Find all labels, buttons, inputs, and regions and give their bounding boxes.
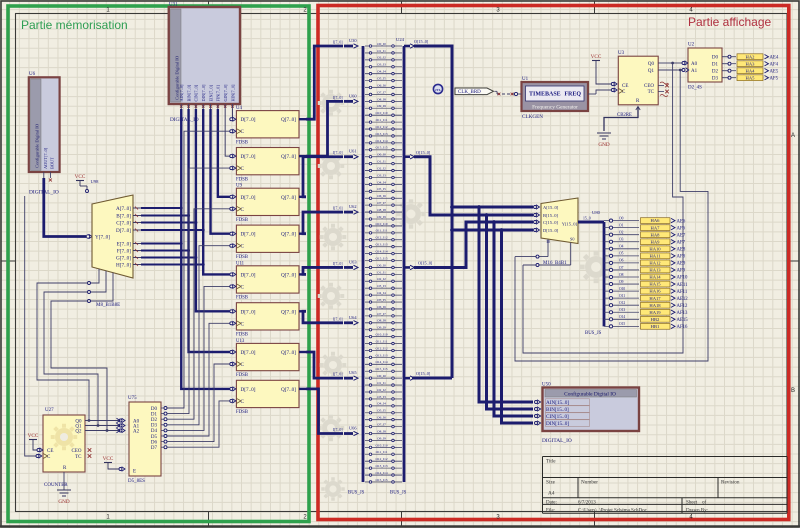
svg-text:AE6: AE6	[677, 219, 686, 224]
svg-text:HA17: HA17	[649, 296, 661, 301]
svg-text:O[15..0]: O[15..0]	[416, 371, 431, 376]
svg-text:VCC: VCC	[103, 456, 114, 462]
svg-text:O5_I5: O5_I5	[377, 409, 386, 413]
svg-text:FDSB: FDSB	[236, 140, 248, 145]
svg-text:U13: U13	[236, 339, 245, 344]
svg-text:Configurable Digital IO: Configurable Digital IO	[35, 123, 40, 168]
svg-text:O7_I7: O7_I7	[377, 423, 386, 427]
svg-text:AF16: AF16	[677, 325, 689, 330]
svg-text:Number: Number	[581, 480, 598, 486]
svg-text:AIN[7..0]: AIN[7..0]	[179, 84, 184, 102]
svg-text:VCC: VCC	[591, 54, 602, 60]
svg-text:O4_I4: O4_I4	[377, 180, 386, 184]
svg-text:O1_I1: O1_I1	[377, 381, 386, 385]
svg-text:D[7..0]: D[7..0]	[241, 195, 256, 201]
svg-text:I[7..0]: I[7..0]	[333, 96, 343, 100]
svg-text:C: C	[241, 362, 245, 368]
svg-text:O2_I2: O2_I2	[377, 277, 386, 281]
svg-text:U60: U60	[349, 93, 357, 98]
svg-text:HA15: HA15	[649, 282, 661, 287]
svg-text:O2_I2: O2_I2	[377, 166, 386, 170]
svg-text:TIMEBASE: TIMEBASE	[529, 92, 561, 98]
svg-text:Q[7..0]: Q[7..0]	[281, 272, 296, 278]
svg-text:O9_I9: O9_I9	[377, 326, 386, 330]
svg-text:A1: A1	[691, 69, 698, 74]
svg-text:FIN[7..0]: FIN[7..0]	[216, 85, 221, 102]
svg-text:A4: A4	[548, 491, 555, 497]
svg-text:AF4: AF4	[770, 62, 779, 67]
svg-text:HA11: HA11	[649, 253, 661, 258]
svg-text:O12_I12: O12_I12	[375, 236, 387, 240]
svg-text:O0_I0: O0_I0	[377, 153, 386, 157]
svg-text:HA8: HA8	[651, 232, 661, 237]
svg-text:O14_I14: O14_I14	[375, 471, 387, 475]
svg-text:O8_I8: O8_I8	[377, 429, 386, 433]
svg-text:BIN[7..0]: BIN[7..0]	[186, 84, 191, 101]
svg-text:O10_I10: O10_I10	[375, 111, 387, 115]
svg-text:VCC: VCC	[28, 433, 39, 439]
svg-text:AE12: AE12	[677, 297, 689, 302]
svg-text:AF6: AF6	[677, 226, 686, 231]
svg-text:Q[7..0]: Q[7..0]	[281, 350, 296, 356]
svg-text:O11_I11: O11_I11	[376, 229, 388, 233]
svg-text:A[7..0]: A[7..0]	[116, 206, 131, 212]
svg-text:D5: D5	[151, 435, 158, 440]
svg-text:HB1: HB1	[651, 324, 660, 329]
svg-text:BUS_JS: BUS_JS	[390, 491, 407, 496]
svg-text:C:\Users\..\Projet Schéma.SchD: C:\Users\..\Projet Schéma.SchDoc	[578, 508, 648, 513]
svg-text:Revision: Revision	[721, 480, 740, 486]
svg-text:O5_I5: O5_I5	[377, 298, 386, 302]
svg-text:AF13: AF13	[677, 311, 689, 316]
svg-text:HA4: HA4	[746, 68, 756, 73]
svg-text:O10_I10: O10_I10	[375, 222, 387, 226]
svg-text:O15: O15	[619, 322, 625, 326]
svg-text:HA19: HA19	[649, 310, 661, 315]
svg-text:VCC: VCC	[75, 174, 86, 180]
svg-text:GND: GND	[58, 499, 69, 505]
svg-text:O8_I8: O8_I8	[377, 97, 386, 101]
svg-text:B: B	[791, 388, 795, 394]
svg-text:D[7..0]: D[7..0]	[241, 154, 256, 160]
svg-text:Y[7..0]: Y[7..0]	[95, 235, 110, 241]
svg-text:O14_I14: O14_I14	[375, 139, 387, 143]
svg-text:G[7..0]: G[7..0]	[116, 255, 131, 261]
svg-text:Q[7..0]: Q[7..0]	[281, 154, 296, 160]
svg-text:O4_I4: O4_I4	[377, 402, 386, 406]
svg-text:O5_I5: O5_I5	[377, 187, 386, 191]
svg-text:O12_I12: O12_I12	[375, 457, 387, 461]
svg-text:DIGITAL_IO: DIGITAL_IO	[170, 117, 199, 123]
svg-text:O7_I7: O7_I7	[377, 90, 386, 94]
svg-text:O10_I10: O10_I10	[375, 333, 387, 337]
svg-text:O13_I13: O13_I13	[375, 132, 387, 136]
svg-text:Y[15..0]: Y[15..0]	[562, 222, 578, 227]
svg-text:C: C	[241, 207, 245, 213]
svg-text:GND: GND	[598, 142, 609, 148]
svg-text:BIN[15..0]: BIN[15..0]	[546, 407, 569, 413]
svg-text:O4_I4: O4_I4	[377, 291, 386, 295]
svg-text:O8: O8	[619, 273, 624, 277]
svg-text:D2_4S: D2_4S	[688, 86, 702, 91]
svg-text:O7_I7: O7_I7	[377, 312, 386, 316]
svg-text:HA13: HA13	[649, 268, 661, 273]
svg-text:D[15..0]: D[15..0]	[543, 228, 559, 233]
svg-text:DIN[7..0]: DIN[7..0]	[201, 84, 206, 102]
svg-text:DIN[15..0]: DIN[15..0]	[546, 421, 569, 427]
svg-text:A2: A2	[133, 429, 140, 434]
svg-text:D0: D0	[151, 407, 158, 412]
svg-text:AE9: AE9	[677, 262, 686, 267]
svg-text:O12_I12: O12_I12	[375, 125, 387, 129]
svg-text:HA9: HA9	[651, 239, 661, 244]
svg-text:AE15: AE15	[677, 318, 689, 323]
svg-text:Frequency Generator: Frequency Generator	[532, 105, 578, 111]
svg-text:O9_I9: O9_I9	[377, 104, 386, 108]
svg-text:I[7..0]: I[7..0]	[333, 207, 343, 211]
svg-text:TC: TC	[648, 90, 655, 95]
svg-text:U11: U11	[236, 261, 245, 266]
svg-text:I[7..0]: I[7..0]	[333, 41, 343, 45]
svg-text:O11: O11	[619, 294, 625, 298]
svg-text:C[7..0]: C[7..0]	[116, 220, 131, 226]
svg-text:C: C	[241, 321, 245, 327]
svg-text:O9_I9: O9_I9	[377, 215, 386, 219]
svg-text:E[7..0]: E[7..0]	[117, 241, 132, 247]
svg-text:U62: U62	[349, 204, 357, 209]
svg-text:O1_I1: O1_I1	[377, 160, 386, 164]
svg-text:BUS_JS: BUS_JS	[585, 331, 602, 336]
svg-text:FDSB: FDSB	[236, 255, 248, 260]
svg-text:O12: O12	[619, 301, 625, 305]
svg-text:Date:: Date:	[546, 500, 557, 505]
svg-text:O4: O4	[619, 245, 624, 249]
svg-text:M8_B1B8E: M8_B1B8E	[96, 303, 120, 308]
svg-text:AF5: AF5	[770, 76, 779, 81]
svg-text:O9: O9	[619, 280, 624, 284]
svg-text:CEO: CEO	[644, 84, 654, 89]
svg-text:I[7..0]: I[7..0]	[333, 151, 343, 155]
svg-text:HA5: HA5	[746, 75, 756, 80]
svg-text:O14: O14	[619, 315, 625, 319]
svg-text:HIN[7..0]: HIN[7..0]	[230, 84, 235, 102]
svg-text:Size: Size	[546, 480, 556, 486]
svg-text:O5: O5	[619, 252, 624, 256]
svg-text:Drawn By:: Drawn By:	[686, 508, 708, 513]
svg-text:Partie affichage: Partie affichage	[688, 15, 771, 29]
svg-text:O14_I14: O14_I14	[375, 360, 387, 364]
svg-text:Sheet of: Sheet of	[686, 500, 707, 505]
svg-text:Q[7..0]: Q[7..0]	[281, 117, 296, 123]
svg-text:O14_I14: O14_I14	[375, 250, 387, 254]
svg-text:U27: U27	[45, 408, 54, 413]
svg-text:O1_I1: O1_I1	[377, 270, 386, 274]
svg-text:U80: U80	[592, 210, 601, 215]
svg-text:A: A	[791, 133, 795, 139]
svg-text:B[7..0]: B[7..0]	[116, 213, 131, 219]
svg-text:O8_I8: O8_I8	[377, 208, 386, 212]
svg-text:HA18: HA18	[649, 303, 661, 308]
svg-text:AF9: AF9	[677, 269, 686, 274]
svg-text:FDSB: FDSB	[236, 218, 248, 223]
svg-text:O[15..0]: O[15..0]	[414, 39, 429, 44]
svg-text:C: C	[241, 244, 245, 250]
svg-text:O3_I3: O3_I3	[377, 173, 386, 177]
svg-text:C[15..0]: C[15..0]	[543, 220, 559, 225]
svg-text:O11_I11: O11_I11	[376, 450, 388, 454]
svg-text:U75: U75	[128, 396, 137, 401]
svg-text:CE: CE	[47, 449, 53, 454]
svg-text:FDSB: FDSB	[236, 333, 248, 338]
svg-text:O6_I6: O6_I6	[377, 416, 386, 420]
svg-text:HB2: HB2	[651, 317, 660, 322]
svg-text:O1_I1: O1_I1	[377, 49, 386, 53]
svg-text:O2_I2: O2_I2	[377, 56, 386, 60]
svg-text:FDSB: FDSB	[236, 410, 248, 415]
svg-text:D2: D2	[712, 70, 719, 75]
svg-text:HA6: HA6	[651, 218, 661, 223]
svg-text:AE7: AE7	[677, 233, 686, 238]
svg-text:D3: D3	[712, 77, 719, 82]
svg-text:HA7: HA7	[651, 225, 661, 230]
svg-text:BUS_JS: BUS_JS	[348, 491, 365, 496]
svg-text:O7_I7: O7_I7	[377, 201, 386, 205]
svg-text:C: C	[241, 399, 245, 405]
svg-text:O10_I10: O10_I10	[375, 443, 387, 447]
svg-text:C: C	[241, 166, 245, 172]
svg-text:AE8: AE8	[677, 248, 686, 253]
svg-text:Q0: Q0	[648, 62, 655, 67]
svg-text:CIN[7..0]: CIN[7..0]	[194, 84, 199, 101]
svg-text:U63: U63	[349, 259, 357, 264]
svg-text:O8_I8: O8_I8	[377, 319, 386, 323]
svg-text:HA12: HA12	[649, 261, 661, 266]
svg-text:O4_I4: O4_I4	[377, 70, 386, 74]
svg-text:AF8: AF8	[677, 255, 686, 260]
svg-text:JTL: JTL	[435, 88, 442, 92]
svg-text:U98: U98	[91, 179, 100, 184]
svg-text:O15_I15: O15_I15	[375, 478, 387, 482]
svg-text:GIN[7..0]: GIN[7..0]	[223, 84, 228, 102]
svg-text:Q1: Q1	[648, 69, 655, 74]
svg-text:O7: O7	[619, 266, 624, 270]
svg-text:AIN[15..0]: AIN[15..0]	[546, 400, 569, 406]
svg-text:U61: U61	[349, 149, 357, 154]
svg-text:O3: O3	[619, 238, 624, 242]
svg-text:Q2: Q2	[75, 429, 82, 434]
svg-text:FDSB: FDSB	[236, 373, 248, 378]
svg-text:HA2: HA2	[746, 54, 756, 59]
svg-text:U3: U3	[618, 51, 625, 56]
svg-text:S0: S0	[570, 237, 574, 242]
svg-text:O11_I11: O11_I11	[376, 339, 388, 343]
svg-text:CE: CE	[622, 84, 628, 89]
svg-text:Partie mémorisation: Partie mémorisation	[21, 18, 128, 32]
svg-text:F[7..0]: F[7..0]	[117, 248, 131, 254]
svg-text:TC: TC	[75, 455, 82, 460]
svg-text:U4: U4	[236, 106, 242, 111]
svg-text:C: C	[241, 284, 245, 290]
svg-text:O3_I3: O3_I3	[377, 284, 386, 288]
svg-text:HA14: HA14	[649, 275, 661, 280]
svg-text:D[7..0]: D[7..0]	[241, 272, 256, 278]
svg-text:E: E	[133, 470, 136, 475]
svg-text:CB2RE: CB2RE	[617, 113, 632, 118]
svg-text:AF10: AF10	[677, 276, 689, 281]
svg-text:HA16: HA16	[649, 289, 661, 294]
svg-text:U24: U24	[396, 37, 405, 42]
svg-text:O15_I15: O15_I15	[375, 146, 387, 150]
svg-text:O6: O6	[619, 259, 624, 263]
svg-text:AE11: AE11	[677, 283, 689, 288]
svg-text:AF12: AF12	[677, 304, 689, 309]
svg-text:CIN[15..0]: CIN[15..0]	[546, 414, 569, 420]
svg-text:O13_I13: O13_I13	[375, 243, 387, 247]
svg-text:D3: D3	[151, 424, 158, 429]
svg-text:Q[7..0]: Q[7..0]	[281, 195, 296, 201]
svg-text:O[15..0]: O[15..0]	[418, 261, 433, 266]
svg-text:AOUT[7..0]: AOUT[7..0]	[43, 147, 48, 169]
svg-text:O6_I6: O6_I6	[377, 194, 386, 198]
svg-text:O13_I13: O13_I13	[375, 464, 387, 468]
svg-text:O10: O10	[619, 287, 625, 291]
svg-text:D[7..0]: D[7..0]	[241, 117, 256, 123]
svg-text:D[7..0]: D[7..0]	[241, 387, 256, 393]
svg-text:U65: U65	[349, 370, 357, 375]
svg-text:AE5: AE5	[770, 69, 779, 74]
svg-text:O3_I3: O3_I3	[377, 395, 386, 399]
svg-text:FDSB: FDSB	[236, 296, 248, 301]
svg-text:15_0: 15_0	[583, 217, 591, 221]
svg-text:Title: Title	[546, 459, 556, 465]
svg-text:AE4: AE4	[770, 55, 779, 60]
svg-text:O2_I2: O2_I2	[377, 388, 386, 392]
svg-text:O0_I0: O0_I0	[377, 374, 386, 378]
svg-text:U2: U2	[688, 43, 695, 48]
svg-text:A0: A0	[691, 62, 698, 67]
svg-text:EIN[7..0]: EIN[7..0]	[208, 84, 213, 101]
svg-text:O9_I9: O9_I9	[377, 436, 386, 440]
svg-text:D5_8ES: D5_8ES	[128, 479, 145, 484]
svg-text:B[15..0]: B[15..0]	[543, 213, 559, 218]
svg-text:D[7..0]: D[7..0]	[241, 232, 256, 238]
svg-text:U30: U30	[349, 38, 357, 43]
svg-text:O11_I11: O11_I11	[376, 118, 388, 122]
svg-text:FREQ: FREQ	[564, 92, 581, 98]
svg-text:H[7..0]: H[7..0]	[116, 262, 131, 268]
svg-text:D6: D6	[151, 440, 158, 445]
svg-text:DIGITAL_IO: DIGITAL_IO	[542, 438, 572, 444]
svg-text:D[7..0]: D[7..0]	[241, 309, 256, 315]
svg-text:AF7: AF7	[677, 240, 686, 245]
svg-text:AF11: AF11	[677, 290, 688, 295]
svg-text:A[15..0]: A[15..0]	[543, 205, 559, 210]
svg-text:HA10: HA10	[649, 246, 661, 251]
svg-text:CLKGEN: CLKGEN	[522, 114, 543, 120]
svg-text:D1: D1	[151, 412, 158, 417]
svg-text:O[15..0]: O[15..0]	[416, 150, 431, 155]
svg-text:O3_I3: O3_I3	[377, 63, 386, 67]
svg-text:I[7..0]: I[7..0]	[333, 262, 343, 266]
svg-text:O13_I13: O13_I13	[375, 353, 387, 357]
svg-text:C: C	[241, 129, 245, 135]
svg-text:O15_I15: O15_I15	[375, 256, 387, 260]
svg-text:O0_I0: O0_I0	[377, 42, 386, 46]
svg-text:D[7..0]: D[7..0]	[241, 350, 256, 356]
svg-text:6/7/2013: 6/7/2013	[578, 500, 596, 505]
svg-text:D7: D7	[151, 446, 158, 451]
svg-text:U9: U9	[236, 184, 242, 189]
svg-text:D[7..0]: D[7..0]	[116, 228, 131, 234]
svg-text:O15_I15: O15_I15	[375, 367, 387, 371]
svg-text:Q[7..0]: Q[7..0]	[281, 309, 296, 315]
svg-text:O0_I0: O0_I0	[377, 263, 386, 267]
svg-text:FDSB: FDSB	[236, 177, 248, 182]
svg-text:O0: O0	[619, 216, 624, 220]
svg-text:I[7..0]: I[7..0]	[333, 317, 343, 321]
svg-text:O12_I12: O12_I12	[375, 346, 387, 350]
svg-text:Q[7..0]: Q[7..0]	[281, 232, 296, 238]
svg-text:D2: D2	[151, 418, 158, 423]
svg-text:BOUT: BOUT	[49, 157, 54, 169]
svg-text:I[7..0]: I[7..0]	[333, 428, 343, 432]
svg-text:CEO: CEO	[72, 449, 82, 454]
svg-text:D1: D1	[712, 63, 719, 68]
svg-text:O2: O2	[619, 231, 624, 235]
svg-text:O5_I5: O5_I5	[377, 77, 386, 81]
svg-text:CLK_BRD: CLK_BRD	[458, 90, 481, 95]
svg-text:O1: O1	[619, 223, 624, 227]
svg-text:Q[7..0]: Q[7..0]	[281, 387, 296, 393]
svg-text:HA3: HA3	[746, 61, 756, 66]
svg-text:File:: File:	[546, 508, 555, 513]
svg-text:I[7..0]: I[7..0]	[333, 373, 343, 377]
svg-text:Configurable Digital IO: Configurable Digital IO	[564, 391, 616, 398]
svg-text:O6_I6: O6_I6	[377, 83, 386, 87]
svg-text:O6_I6: O6_I6	[377, 305, 386, 309]
svg-text:U64: U64	[349, 315, 357, 320]
svg-text:COUNTER: COUNTER	[44, 483, 68, 488]
svg-text:D0: D0	[712, 56, 719, 61]
svg-text:D4: D4	[151, 429, 158, 434]
svg-text:U66: U66	[349, 426, 357, 431]
svg-text:O13: O13	[619, 308, 625, 312]
